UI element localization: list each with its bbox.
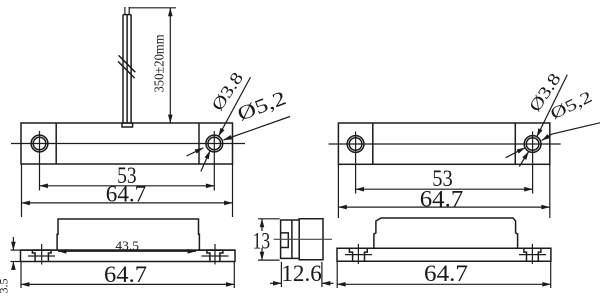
magnet side view: right hole centerline horizontal (519, 254, 546, 256)
dim 3.5: top witness tick (11, 249, 21, 251)
switch top view: left hole inner circle (33, 137, 46, 150)
svg-text:12.6: 12.6 (281, 261, 322, 286)
leader Ø5.2 (switch): upper line with arrow at circle (223, 117, 290, 141)
dim 64.7 (switch): right extension line (232, 164, 234, 217)
magnet side view: body outline with chamfers and ledge steps (374, 218, 518, 248)
end view: cable exit box (281, 233, 289, 248)
dim 53 (magnet): dimension line with arrows (356, 188, 533, 190)
end view: inner vertical edge (291, 220, 293, 258)
switch top view: right divider line (198, 123, 200, 164)
dim 13: bottom witness tick (258, 259, 280, 261)
dim 53 (switch): dimension line with arrows (40, 185, 215, 187)
svg-text:43.5: 43.5 (115, 239, 139, 253)
leader Ø3.8 (switch): upper line with arrow at circle (219, 77, 251, 136)
dim 64.7 (magnet side): left extension line (336, 261, 338, 288)
cable break slash 2 (118, 61, 135, 78)
cable: strain relief block (122, 123, 133, 127)
leader Ø3.8 (magnet): upper line with arrow at circle (537, 75, 568, 137)
svg-text:13: 13 (253, 229, 271, 254)
switch top view: left hole outer circle (31, 135, 48, 152)
magnet top view: right hole vertical centerline / extension (532, 132, 534, 194)
cable: right lead wire (128, 7, 130, 15)
dim 3.5: lower stub with arrow (12, 262, 14, 271)
dim 350±20mm: top extension line (129, 7, 176, 9)
dim 64.7 (magnet side): dimension line with arrows (337, 283, 551, 285)
switch side view: right countersunk hole profile (207, 250, 223, 261)
dim 64.7 (magnet side): right extension line (550, 261, 552, 288)
leader Ø3.8 (switch): lower tail with arrow (201, 151, 210, 172)
magnet side view: base plate outline (337, 248, 551, 261)
switch top view: right hole inner circle (208, 137, 221, 150)
dim 64.7 (switch side): dimension line with arrows (21, 283, 234, 285)
cable: middle line (126, 15, 128, 123)
magnet top view: horizontal centerline (329, 143, 561, 145)
dim 64.7 (magnet): right extension line (549, 164, 551, 218)
svg-text:64.7: 64.7 (106, 181, 147, 206)
leader Ø5.2 (magnet): upper bent line with arrow at circle (542, 123, 600, 141)
cable: left lead wire (124, 7, 126, 15)
magnet top view: left divider line (372, 123, 374, 164)
switch side view: right hole centerline vertical (214, 244, 216, 265)
dim 64.7 (switch): dimension line with arrows (22, 202, 233, 204)
magnet side view: right hole centerline vertical (531, 244, 533, 264)
dim 64.7 (switch): left extension line (21, 164, 23, 217)
dim 12.6: right extension line (321, 262, 323, 287)
magnet top view: left hole inner circle (349, 138, 362, 151)
dim 13: top witness tick (258, 218, 280, 220)
leader Ø3.8 (magnet): lower tail with arrow (519, 152, 528, 167)
magnet side view: left countersunk hole profile (349, 248, 367, 261)
dim 350±20mm: vertical dimension line with arrows (169, 8, 171, 123)
switch side view: left countersunk hole profile (32, 250, 51, 261)
magnet side view: left hole centerline horizontal (345, 254, 372, 256)
magnet top view: left hole vertical centerline / extension (355, 132, 357, 194)
cable: right edge (130, 15, 132, 123)
magnet top view: right hole inner circle (526, 138, 539, 151)
leader Ø5.2 (switch): lower tail with arrow (187, 148, 204, 156)
svg-text:3.5: 3.5 (0, 279, 11, 294)
dim 13: upper dimension segment with arrow (261, 219, 263, 231)
switch side view: base plate outline (21, 250, 236, 261)
dim 3.5: upper stub with arrow (12, 237, 14, 250)
magnet top view: right hole outer circle (524, 136, 541, 153)
switch top view: left hole vertical centerline / extension (39, 131, 41, 191)
switch top view: left divider line (55, 123, 57, 164)
magnet top view: right divider line (514, 123, 516, 164)
magnet side view: right countersunk hole profile (524, 248, 541, 261)
end view: front face outline (281, 220, 300, 258)
cable: top jacket line (123, 14, 131, 16)
end view: rear body outline (299, 219, 323, 260)
cable: left edge (122, 15, 124, 123)
switch side view: right hole centerline horizontal (202, 255, 229, 257)
dim 64.7 (switch side): left extension line (20, 262, 22, 289)
cable break slash 1 (119, 55, 136, 72)
dim 12.6: left stub with arrow (270, 282, 281, 284)
magnet top view: body outline (338, 123, 549, 164)
dim 43.5: dimension line with arrows (58, 250, 196, 252)
switch top view: body outline (21, 123, 233, 164)
leader Ø5.2 (magnet): lower tail with arrow (506, 148, 525, 158)
svg-text:64.7: 64.7 (424, 261, 468, 286)
switch side view: left hole centerline vertical (41, 244, 43, 265)
dim 64.7 (magnet): left extension line (337, 164, 339, 218)
magnet top view: left hole outer circle (347, 136, 364, 153)
magnet side view: base top line (337, 247, 551, 249)
svg-text:64.7: 64.7 (104, 262, 147, 287)
dim 64.7 (magnet): dimension line with arrows (338, 206, 549, 208)
magnet side view: left hole centerline vertical (357, 244, 359, 264)
switch top view: right hole vertical centerline / extension (213, 131, 215, 191)
switch side view: body outline with bottom ledge step (57, 219, 199, 250)
switch top view: right hole outer circle (206, 135, 223, 152)
dim 64.7 (switch side): right extension line (233, 262, 235, 289)
switch side view: base top line (21, 249, 236, 251)
switch side view: left hole centerline horizontal (28, 255, 55, 257)
dim 12.6: right stub with arrow (322, 282, 334, 284)
svg-text:64.7: 64.7 (420, 186, 464, 211)
svg-text:350±20mm: 350±20mm (153, 34, 168, 92)
dim 3.5: bottom witness tick (11, 261, 21, 263)
switch top view: horizontal centerline (11, 143, 245, 145)
dim 12.6: left extension line (280, 262, 282, 287)
dim 13: lower dimension segment with arrow (261, 248, 263, 260)
end view: horizontal centerline (274, 238, 332, 240)
